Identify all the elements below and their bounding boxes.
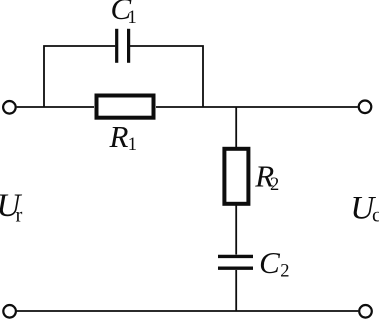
capacitor C2 — [218, 256, 253, 268]
svg-text:2: 2 — [280, 262, 289, 282]
wire C2 bottom lead — [235, 270, 237, 311]
label C2 — [259, 245, 289, 282]
resistor R1 — [97, 96, 154, 118]
svg-text:2: 2 — [270, 175, 279, 195]
svg-text:r: r — [16, 204, 23, 226]
label C1 — [111, 0, 137, 28]
label Uc — [350, 191, 379, 227]
wire C1 branch left riser and top — [44, 46, 115, 107]
svg-text:R: R — [109, 119, 129, 154]
wire R2 to C2 — [235, 206, 237, 255]
wire R2 top lead — [235, 107, 237, 147]
svg-text:c: c — [372, 205, 379, 227]
terminal right-bottom — [359, 305, 372, 318]
label R2 — [254, 159, 279, 196]
label Ur — [0, 188, 23, 226]
svg-text:C: C — [259, 245, 280, 280]
capacitor C1 — [117, 29, 129, 63]
terminal right-top — [359, 101, 372, 114]
wire top rail left — [17, 106, 94, 108]
terminal left-bottom — [3, 305, 16, 318]
wire C1 branch top right and right riser — [130, 46, 203, 107]
svg-text:1: 1 — [128, 135, 137, 155]
resistor R2 — [224, 149, 248, 204]
wire top rail right — [156, 106, 358, 108]
svg-text:1: 1 — [128, 8, 137, 28]
terminal left-top — [3, 101, 16, 114]
wire bottom rail — [17, 310, 359, 312]
label R1 — [109, 119, 137, 155]
